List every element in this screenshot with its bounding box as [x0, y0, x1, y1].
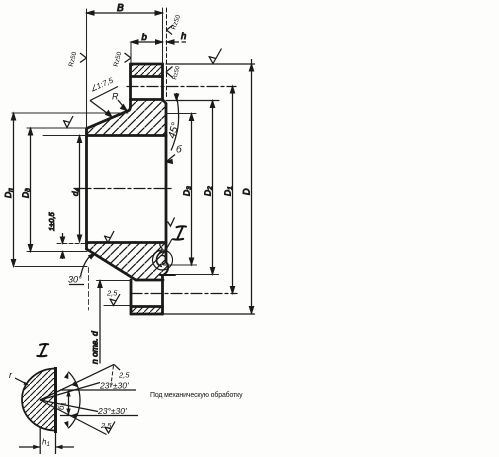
extension line y=314 (D bottom) [163, 313, 255, 315]
svg-text:h: h [181, 31, 186, 42]
h1 extensions [39, 428, 41, 454]
extension line y=128 left (Dd top) [27, 127, 87, 129]
svg-text:23°±30': 23°±30' [97, 406, 127, 416]
R leader [118, 100, 125, 109]
dimension D2 [212, 101, 214, 275]
centerline main axis [74, 188, 172, 190]
dimension h [167, 40, 175, 44]
face line thick [54, 367, 57, 433]
svg-text:б: б [176, 144, 182, 156]
n otv d leader [99, 281, 101, 364]
bore top surface [87, 134, 167, 137]
svg-text:1±0,5: 1±0,5 [47, 211, 56, 231]
weld bottom edge [160, 274, 175, 276]
weld bead outline at face bottom [162, 262, 169, 276]
raw face dashed extension [166, 8, 168, 99]
angle arc [68, 372, 80, 429]
b (delta) leader [167, 155, 176, 162]
svg-text:30°: 30° [68, 275, 82, 285]
lower gap wall right (face) [161, 276, 164, 315]
extension line y=265 (D3 bottom) [164, 264, 197, 266]
svg-text:Под механическую обработку: Под механическую обработку [150, 391, 243, 399]
extension line y=274.5 (D2 bottom) [175, 274, 219, 276]
svg-text:R: R [112, 92, 119, 102]
part outline: collar top edge [131, 63, 163, 66]
dimension 1±0,5 [62, 233, 64, 244]
lower gap wall left [130, 280, 133, 314]
45 deg arc leader [171, 93, 179, 151]
dimension b [131, 41, 163, 43]
bolt hole bottom wall / shoulder [131, 98, 163, 101]
extension line y=135.5 left (bore) [43, 135, 87, 137]
taper label 1:7,5 [90, 87, 118, 101]
label underline bottom / b1 ext [60, 415, 138, 417]
detail callout circle I [153, 250, 173, 270]
Rz50 marks [80, 53, 87, 63]
extension line y=306 left of rim [104, 305, 131, 307]
dimension D3 [191, 114, 193, 266]
extension line y=251.5 left [27, 251, 87, 253]
svg-text:n отв. d: n отв. d [90, 331, 100, 364]
30 deg leader [81, 255, 92, 277]
dimension d4 [79, 136, 81, 243]
svg-text:B: B [117, 3, 124, 14]
extension line y=100.5 right [166, 100, 219, 102]
hatch: upper hub region [87, 100, 167, 136]
h1 dim lines [19, 446, 74, 448]
vertical dashed mark left of rim [88, 268, 90, 311]
dimension Dd [30, 128, 32, 252]
apex drop line [111, 366, 114, 390]
extension line y=243.5 left [57, 243, 87, 245]
dimension D1 [232, 86, 234, 294]
dimension Dp [13, 113, 15, 267]
svg-text:2,5: 2,5 [106, 289, 118, 298]
svg-text:2,5: 2,5 [118, 371, 130, 380]
bolt axis top [127, 86, 236, 88]
extension line y=113.5 right [166, 113, 196, 115]
svg-text:D: D [242, 188, 252, 195]
extension of ring bottom to left [97, 280, 132, 282]
rim top wall [131, 305, 163, 308]
label underline top / b1 ext [60, 389, 136, 391]
b1 dimension [68, 390, 70, 416]
hatch: bottom rim band [131, 307, 163, 315]
check mark above detail I [168, 218, 175, 227]
b extension left [130, 42, 132, 64]
hatch: lower ring region [87, 243, 169, 281]
svg-text:b: b [142, 32, 147, 43]
weld bead inside detail circle [156, 252, 164, 267]
hatch: collar top band [131, 64, 163, 77]
raised sealing face [165, 104, 168, 263]
2,5 leader top [114, 364, 120, 370]
fan lines [40, 364, 114, 400]
dimension B [87, 12, 163, 14]
weld mark at bore corner [159, 242, 163, 253]
bolt hole top wall [131, 75, 163, 78]
collar left edge [129, 64, 132, 107]
left face extension up [86, 9, 88, 129]
left (back) face [85, 129, 88, 250]
bolt axis bottom [131, 293, 237, 295]
extension line y=64 right [166, 63, 255, 65]
chamfer 45 at shoulder [163, 100, 167, 104]
ring top surface (bore bottom) [87, 241, 167, 244]
svg-text:23°±30': 23°±30' [99, 381, 129, 391]
roughness checks on surfaces [63, 25, 222, 305]
30 deg back chamfer [87, 249, 137, 280]
r leader [15, 378, 28, 385]
rim bottom edge [131, 313, 163, 316]
extension line y=266.5 left [15, 266, 87, 268]
extension line y=113 left (Dp top) [12, 112, 128, 114]
dimension D [251, 59, 253, 314]
detail blob (weld ring section) [22, 369, 56, 431]
ring bottom edge [136, 279, 163, 282]
face of collar [161, 64, 164, 100]
face extension up [162, 8, 164, 64]
taper slant 1:7,5 with fillet [87, 107, 131, 129]
